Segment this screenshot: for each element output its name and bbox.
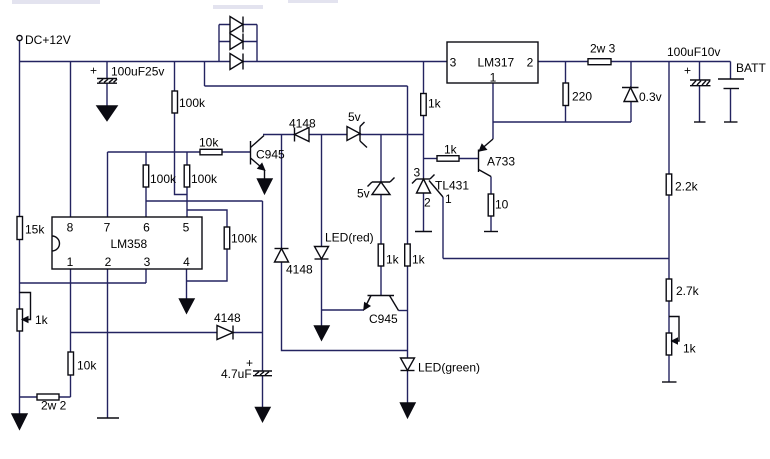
svg-text:4148: 4148 (214, 311, 241, 325)
wire pin3 column (145, 269, 147, 283)
wire 10 resistor to ground bar (490, 216, 492, 232)
resistor 10k (horizontal, to C945 base) (200, 149, 222, 155)
wire x407 column bypass to 1k (407, 86, 409, 244)
wire right rail 2.7k to trimmer (668, 301, 670, 333)
diode 4148 (horizontal bottom, pointing right) (217, 326, 233, 340)
ground arrow below LED(green) (401, 403, 416, 418)
wire 1k base resistor line to A733 (424, 158, 438, 160)
wire diode pack top diode row (219, 24, 257, 26)
svg-text:100k: 100k (231, 232, 258, 246)
wire BATT bottom to ground bar (730, 89, 732, 123)
diode pack D2 (middle) (230, 34, 243, 50)
resistor 100k (x174 from rail) (172, 91, 178, 113)
svg-text:LM317: LM317 (478, 56, 515, 70)
wire bypass drop at x204 (204, 62, 206, 87)
wire 100k(x227) bottom to pin4 jog (187, 249, 228, 281)
wire pin1 column to 10k (70, 269, 72, 352)
wire pin6 feedback line to cap column (146, 200, 263, 202)
wire LM317 pin1 down to emitter node (492, 83, 494, 139)
ground bar below BATT (724, 121, 738, 123)
wire 100k(x174) bottom down and jog to pin5 column (175, 113, 188, 195)
svg-text:LED(red): LED(red) (325, 231, 374, 245)
resistor 100k (x227) (224, 227, 230, 249)
transistor Q1 C945 (top) (251, 136, 265, 180)
wire pin8 column from rail (70, 62, 72, 218)
capacitor 100uF25v (97, 79, 117, 84)
wiper of left 1k trimmer (20, 293, 31, 323)
svg-text:DC+12V: DC+12V (25, 33, 71, 47)
svg-text:0.3v: 0.3v (639, 90, 662, 104)
ground bar below right trimmer (662, 381, 677, 383)
svg-text:100k: 100k (179, 96, 206, 110)
resistor 1k trimmer (right) body (666, 333, 672, 355)
ground arrow below LED(red) (315, 326, 330, 340)
resistor 100k (pin6 feedback) (143, 165, 149, 187)
svg-text:2.2k: 2.2k (675, 180, 699, 194)
svg-text:3: 3 (450, 56, 457, 70)
shunt reference U3 TL431 (412, 175, 443, 198)
svg-text:10: 10 (495, 198, 509, 212)
wire 100uF25v cap stub (106, 62, 108, 79)
svg-text:2w 3: 2w 3 (590, 42, 616, 56)
svg-text:8: 8 (67, 221, 74, 235)
resistor 1k (x407) (405, 244, 411, 266)
svg-text:2w 2: 2w 2 (41, 399, 67, 413)
wire x407 column 1k to LED(green) (407, 266, 409, 358)
svg-text:1: 1 (445, 192, 452, 206)
wire 100uF10v stub (699, 62, 701, 81)
svg-text:+: + (246, 356, 253, 370)
svg-text:5: 5 (183, 221, 190, 235)
svg-text:220: 220 (572, 90, 592, 104)
wire 2w2 resistor line (20, 396, 71, 398)
svg-text:+: + (90, 64, 97, 78)
resistor 2w3 (horizontal on rail) (588, 59, 611, 65)
resistor 100k (pin5) (184, 165, 190, 187)
ground bar below TL431 (415, 231, 432, 233)
wire 4148 comparator line (71, 332, 263, 334)
wire 1k(x423) to TL431 cathode (423, 116, 425, 180)
LM358 notch (52, 236, 59, 251)
wire LED(red) column from collector line (321, 135, 323, 247)
wire feedback column down to 4.7uF (262, 201, 264, 371)
svg-text:1: 1 (490, 71, 497, 85)
battery BATT symbol (718, 79, 744, 89)
wire right rail trimmer to ground bar (668, 355, 670, 382)
resistor 220 (563, 83, 569, 106)
svg-text:10k: 10k (199, 136, 219, 150)
wire output line pin7 to C945 base (108, 151, 251, 153)
svg-text:2: 2 (105, 255, 112, 269)
wire 1k to A733 base bar (459, 158, 479, 160)
svg-text:2.7k: 2.7k (676, 284, 700, 298)
diode 4148 (horizontal on collector line, pointing left) (295, 128, 310, 142)
diode 4148 (vertical, x281) (275, 249, 289, 263)
ground bar pin2 (97, 417, 119, 419)
svg-text:3: 3 (144, 255, 151, 269)
resistor 10 (A733 collector) (488, 194, 494, 216)
svg-text:100k: 100k (150, 172, 177, 186)
resistor 15k (17, 217, 23, 240)
resistor 2.2k (666, 174, 672, 195)
svg-text:A733: A733 (487, 155, 515, 169)
wire 4148 vertical column upper (281, 135, 283, 249)
svg-text:1k: 1k (412, 253, 426, 267)
faint cropped text remnants at top edge (12, 0, 338, 9)
wire BATT stub (730, 62, 732, 80)
IC U1 LM358 box (52, 217, 202, 269)
svg-text:1k: 1k (444, 143, 458, 157)
svg-text:2: 2 (527, 56, 534, 70)
svg-text:100uF25v: 100uF25v (111, 65, 164, 79)
wire 5v zener to 1k (380, 195, 382, 245)
ground arrow below 100uF25v (97, 106, 117, 121)
resistor 1k trimmer (left) body (17, 309, 23, 331)
wire TL431 anode to ground bar (423, 193, 425, 232)
LED(green) (401, 358, 415, 371)
wire right rail 2.2k to 2.7k (668, 195, 670, 279)
LED(red) (315, 247, 329, 260)
wire below 100uF25v to ground arrow (106, 83, 108, 106)
transistor Q2 C945 (bottom) (364, 296, 399, 311)
capacitor 100uF10v (690, 80, 711, 86)
wire diode pack middle diode row (219, 41, 257, 43)
resistor 1k (x423 from rail) (421, 94, 427, 116)
wire LED(red) to C945 emitter line (322, 309, 365, 311)
wire 0.3v zener bottom to sense line (630, 102, 632, 122)
wire below 4.7uF to ground arrow (262, 376, 264, 408)
diode pack D1 (top) (230, 17, 243, 33)
svg-text:BATT: BATT (736, 61, 766, 75)
wire pin6 column below 100k (145, 187, 147, 217)
wire LED(red) to ground arrow, base branch (321, 259, 323, 326)
wire 1k(x381) to C945 base bar (380, 266, 382, 296)
svg-text:C945: C945 (369, 312, 398, 326)
IC U2 LM317 box (447, 42, 538, 83)
svg-text:1k: 1k (35, 313, 49, 327)
resistor 1k (horizontal, A733 base) (437, 156, 459, 162)
wire diode pack right bus (256, 25, 258, 62)
wire pin7 column (107, 152, 109, 217)
node DC+12V terminal (17, 35, 22, 40)
transistor Q3 A733 (479, 139, 494, 177)
svg-text:4148: 4148 (286, 263, 313, 277)
wire 4148 vertical column lower with loop to LED green column (282, 262, 408, 351)
diode pack D3 (bottom, on rail) (230, 54, 243, 70)
svg-text:100uF10v: 100uF10v (667, 45, 720, 59)
ground arrow bottom left (12, 414, 27, 429)
wire 100uF10v to ground bar (699, 86, 701, 123)
wire diode pack left bus (218, 25, 220, 62)
svg-text:1: 1 (67, 255, 74, 269)
wire 1k(x423) column from rail (423, 62, 425, 94)
wire 0.3v zener top stub (630, 62, 632, 89)
svg-text:4: 4 (183, 255, 190, 269)
wire 220 top stub (565, 62, 567, 84)
wire 10k bottom to 2w2 line (70, 375, 72, 397)
wire pin4 column to ground arrow (186, 269, 188, 299)
svg-text:1k: 1k (386, 253, 400, 267)
wire 5v zener column (x381) (380, 135, 382, 183)
wire left rail (12V down to 15k) (19, 62, 21, 217)
svg-text:100k: 100k (191, 172, 218, 186)
svg-text:1k: 1k (428, 97, 442, 111)
wire pin5 jog to 100k(x227) (187, 210, 227, 227)
svg-text:C945: C945 (256, 148, 285, 162)
ground arrow below C945 emitter (258, 179, 273, 194)
wire +12V top rail left section (20, 61, 448, 63)
zener 5v (horizontal) (347, 122, 367, 148)
svg-text:3: 3 (414, 166, 421, 180)
wire DC input stub (19, 41, 21, 62)
wire +12V top rail right section (LM317 pin2 to BATT) (538, 61, 731, 63)
svg-text:5v: 5v (357, 187, 370, 201)
wire pin2 column to ground bar (107, 269, 109, 418)
wire TL431 ref pin down (442, 197, 444, 259)
svg-text:6: 6 (143, 221, 150, 235)
wire C945 collector to LED green column (399, 310, 408, 312)
wire TL431 ref line to right rail (443, 258, 669, 260)
resistor 2w2 (37, 394, 59, 400)
wire 100k(x174) top from rail (174, 62, 176, 92)
svg-text:2: 2 (424, 196, 431, 210)
resistor 10k (pin1 column) (68, 352, 74, 375)
ground bar below 100uF10v (694, 121, 706, 123)
zener 0.3v (622, 88, 639, 102)
svg-text:LED(green): LED(green) (418, 361, 480, 375)
svg-text:7: 7 (104, 221, 111, 235)
svg-text:5v: 5v (348, 110, 361, 124)
svg-text:4148: 4148 (289, 117, 316, 131)
ground arrow below 4.7uF (256, 408, 271, 422)
wire pin6 column above box (145, 152, 147, 165)
svg-text:15k: 15k (25, 223, 45, 237)
wire pin5 column below 100k (186, 187, 188, 217)
wire LED(green) to ground arrow (407, 371, 409, 404)
wire collector line y134.5 (263, 134, 424, 136)
wire pin5 column above box (186, 152, 188, 165)
wiper of right 1k trimmer (669, 317, 679, 344)
wire 220 bottom to sense line (565, 106, 567, 123)
svg-text:+: + (684, 64, 691, 78)
ground arrow below pin4 (180, 299, 195, 313)
svg-text:TL431: TL431 (435, 179, 469, 193)
svg-text:LM358: LM358 (111, 237, 148, 251)
wire emitter sense line y122 (493, 121, 631, 123)
ground bar below 10 (484, 231, 498, 233)
svg-text:10k: 10k (77, 359, 97, 373)
zener 5v (vertical, x381) (368, 178, 395, 195)
resistor 2.7k (666, 279, 672, 301)
wire A733 collector to 10 resistor (490, 177, 492, 195)
wire right rail from top (668, 62, 670, 175)
resistor 1k (x381) (378, 244, 384, 266)
wire left rail 15k to 1k trimmer (19, 240, 21, 310)
wire pin3 line to left rail (20, 282, 147, 284)
wire left rail trimmer to bottom ground (19, 331, 21, 414)
capacitor 4.7uF (253, 371, 272, 376)
svg-text:1k: 1k (683, 342, 697, 356)
wire bypass line y86 to x407 column (205, 85, 408, 87)
